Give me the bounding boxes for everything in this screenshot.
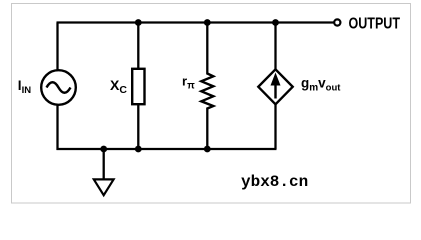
wire rpi column top bbox=[206, 23, 208, 75]
node junction bottom Xc bbox=[135, 146, 142, 153]
wire rpi column bottom bbox=[206, 108, 208, 150]
node junction top gm bbox=[272, 19, 279, 26]
wire Xc column bottom bbox=[137, 104, 139, 149]
wire left column bottom bbox=[56, 105, 58, 150]
output terminal circle bbox=[334, 19, 340, 25]
resistor rpi zigzag bbox=[201, 74, 213, 109]
dependent source arrow shaft bbox=[274, 84, 276, 99]
reactance Xc box bbox=[132, 69, 144, 104]
wire top rail bbox=[57, 21, 334, 23]
wire gm column top bbox=[274, 23, 276, 71]
node junction top Xc bbox=[135, 19, 142, 26]
node junction top rpi bbox=[204, 19, 211, 26]
current source I_IN sine bbox=[47, 82, 71, 93]
node junction bottom ground bbox=[100, 146, 107, 153]
svg-text:ybx8.cn: ybx8.cn bbox=[241, 173, 308, 191]
wire left column top bbox=[56, 23, 58, 71]
wire Xc column top bbox=[137, 23, 139, 70]
svg-text:OUTPUT: OUTPUT bbox=[349, 16, 401, 33]
wire ground stem bbox=[103, 149, 105, 180]
wire bottom rail bbox=[57, 148, 277, 150]
ground bbox=[94, 179, 114, 195]
wire gm column bottom bbox=[274, 104, 276, 150]
dependent source arrow head bbox=[271, 73, 281, 86]
current source I_IN circle bbox=[41, 70, 76, 105]
node junction bottom rpi bbox=[204, 146, 211, 153]
dependent source diamond bbox=[258, 69, 292, 104]
